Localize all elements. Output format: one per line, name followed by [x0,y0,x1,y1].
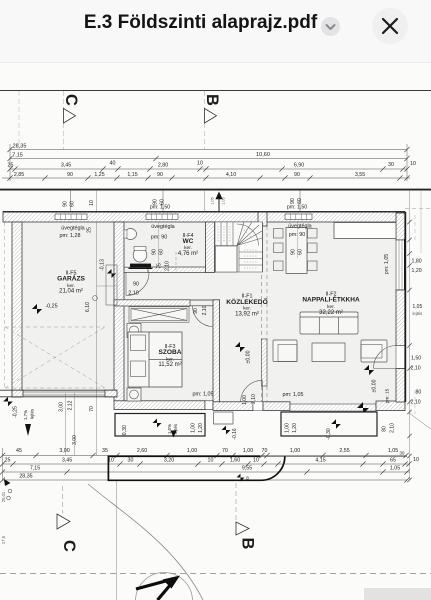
left dim verticals bottom [65,393,67,455]
left outside level -0,25 [3,397,13,407]
wardrobe with X szoba [129,307,189,322]
sill nappali terrace door [290,404,376,411]
svg-text:7,15: 7,15 [30,466,40,472]
door opening right wall [396,346,405,369]
window right wall [396,239,405,291]
svg-text:70: 70 [222,448,228,454]
svg-text:-0,25: -0,25 [45,304,57,310]
wall wc bottom [148,267,206,273]
garage bottom wall with door [0,390,117,397]
svg-text:3,45: 3,45 [61,163,71,169]
svg-text:B: B [203,94,221,106]
svg-text:1,00: 1,00 [290,448,300,454]
entry step [214,412,234,424]
svg-text:2,80: 2,80 [158,163,168,169]
svg-text:1,00: 1,00 [285,423,291,433]
staircase [215,222,263,272]
svg-text:pm: 15: pm: 15 [385,388,391,403]
close button [372,8,408,44]
top wall heavy outer contour [3,211,405,213]
section marker C bottom [62,486,64,513]
kitchen counter [334,223,396,239]
terrace szoba [115,414,205,437]
wall exterior right mid [396,290,405,346]
svg-text:90: 90 [67,172,73,178]
dashed open boundary koz-nappali [261,226,263,339]
wall exterior right upper [396,213,405,240]
svg-text:lejtés: lejtés [30,408,35,419]
svg-text:pm: 1,05: pm: 1,05 [384,254,390,274]
wall exterior left [12,222,22,397]
wall szoba right [213,300,220,405]
right wall door arc [374,346,397,369]
top dimension chain row4 [2,177,410,179]
nappali level marker [364,365,374,375]
armchair right [361,340,387,362]
svg-text:WC: WC [183,238,194,245]
left arrow small [4,479,11,486]
svg-text:4,15: 4,15 [315,458,325,464]
dim stub 10 line x96 [96,190,98,455]
canopy edge thick line [0,189,431,191]
wall szoba bottom [114,401,205,410]
svg-text:32,22 m²: 32,22 m² [319,310,343,316]
dining table [286,228,307,274]
svg-text:1,7%: 1,7% [23,410,28,420]
north arrow [136,578,176,589]
level 8 marker [237,474,245,482]
pdf viewer top bar [0,0,431,63]
svg-text:2,10: 2,10 [411,366,421,372]
svg-text:25: 25 [8,163,14,169]
svg-text:üvegtégla: üvegtégla [151,224,174,230]
svg-text:1,20: 1,20 [412,268,422,274]
svg-text:-0,30: -0,30 [326,428,332,440]
svg-text:pm: 90: pm: 90 [151,235,167,241]
svg-text:C: C [60,540,78,552]
section marker C top [63,91,65,150]
svg-text:1,50: 1,50 [411,356,421,362]
svg-text:60: 60 [159,249,165,255]
terrace door big level marker [357,402,369,414]
svg-text:21,04 m²: 21,04 m² [59,289,83,295]
svg-text:35: 35 [102,448,108,454]
svg-text:60: 60 [297,198,303,204]
bed szoba [128,332,182,387]
svg-text:70: 70 [89,406,95,412]
svg-text:3,00: 3,00 [59,448,69,454]
svg-text:2,85: 2,85 [14,172,24,178]
wall exterior top [3,212,405,223]
svg-text:4,76 m²: 4,76 m² [178,251,198,257]
dim stub wc col 90/60 pm 1,50 [162,190,164,212]
svg-text:45: 45 [16,448,22,454]
dim stub nappali col 90/60 pm 1,50 [299,190,301,212]
svg-text:80: 80 [382,426,388,432]
svg-text:10: 10 [253,458,259,464]
svg-text:60: 60 [70,201,76,207]
bottom dim row B [2,463,410,465]
sofa [300,312,358,334]
svg-text:-0,16: -0,16 [232,428,238,440]
svg-text:10,60: 10,60 [256,152,270,158]
svg-text:B: B [239,538,257,550]
grid line B continuation [204,190,206,212]
svg-text:90: 90 [291,249,297,255]
svg-text:1,00: 1,00 [191,423,197,433]
svg-text:10: 10 [208,458,214,464]
svg-text:25,01: 25,01 [1,491,6,502]
driveway curve [88,484,203,600]
svg-text:90: 90 [63,201,69,207]
svg-text:1,05: 1,05 [413,304,423,310]
svg-text:10: 10 [89,200,95,206]
bottom right gray band [364,588,431,600]
svg-text:3,00: 3,00 [72,435,78,445]
svg-text:1,00: 1,00 [243,448,253,454]
right margin dim lines [409,190,411,480]
svg-text:90: 90 [294,172,300,178]
kozlekedo level marker [235,342,245,352]
svg-text:10: 10 [197,161,203,167]
svg-text:pm: 1,05: pm: 1,05 [283,392,304,398]
door opening koz bottom [253,402,263,411]
svg-text:1,05: 1,05 [211,197,215,204]
svg-text:2,10: 2,10 [411,400,421,406]
svg-text:pm: 90: pm: 90 [289,232,305,238]
vertical line below building [116,481,118,600]
top dimension chain row2 7,15 / 10,60 [10,158,407,160]
glass block strip nappali [285,214,312,220]
svg-text:75: 75 [157,263,163,269]
room floor fills [12,212,117,397]
dining chairs left [274,229,284,239]
svg-text:10: 10 [413,457,419,463]
svg-text:80: 80 [416,390,422,396]
svg-text:pm: 1,28: pm: 1,28 [60,233,81,239]
svg-text:1,0%: 1,0% [167,424,172,434]
svg-text:6,90: 6,90 [294,163,304,169]
svg-text:90: 90 [290,198,296,204]
svg-text:KÖZLEKEDŐ: KÖZLEKEDŐ [226,297,267,306]
svg-text:25: 25 [87,227,93,233]
svg-text:±0,00: ±0,00 [372,379,378,392]
svg-text:28,35: 28,35 [19,474,32,480]
svg-text:1,20: 1,20 [198,423,204,433]
svg-text:1,05: 1,05 [390,466,400,472]
svg-text:28,35: 28,35 [13,144,27,150]
svg-text:1,25: 1,25 [94,172,104,178]
section marker B bottom [235,483,237,521]
svg-text:2,55: 2,55 [339,448,349,454]
section marker B top [204,91,206,149]
svg-text:2,10: 2,10 [165,261,171,271]
right leader diagonal [409,413,431,429]
right margin dashed segments [414,215,416,240]
svg-text:üvegtégla: üvegtégla [61,226,84,232]
svg-text:1,15: 1,15 [127,172,137,178]
wall bottom right segment [376,401,405,411]
svg-text:3,20: 3,20 [164,458,174,464]
wall koz bottom [213,402,253,411]
lower building outline thick [108,455,260,457]
svg-text:4,10: 4,10 [226,172,236,178]
svg-text:90: 90 [152,249,158,255]
svg-text:lejtés: lejtés [413,311,423,316]
step level -0,16 [221,425,230,434]
glass block strip garage [55,214,87,220]
svg-text:SZOBA: SZOBA [158,349,181,356]
bottom dim row A [2,455,407,457]
svg-text:3,00: 3,00 [59,402,65,412]
svg-text:90: 90 [157,172,163,178]
garage car space dashed X [5,327,105,388]
wall koz-nappali bottom segment [263,402,290,411]
svg-text:1,20: 1,20 [292,423,298,433]
svg-text:1,80: 1,80 [412,259,422,265]
terrace nappali [281,412,377,436]
svg-text:1,00: 1,00 [242,395,248,405]
right wall heavy outer contour [404,212,406,402]
glass block strip wc [146,214,178,220]
svg-text:6,10: 6,10 [85,302,91,312]
svg-text:60: 60 [298,249,304,255]
svg-text:-0,30: -0,30 [122,425,128,437]
garage level marker -0,25 [32,304,42,314]
armchair left [273,340,297,362]
svg-text:40: 40 [110,161,116,167]
garage door leaf rect in hall [106,265,117,305]
szoba door arc [193,306,214,327]
wc door arc [126,273,149,296]
bottom dim row D [2,479,407,481]
bottom dim row C [2,471,410,473]
dashed overhang line left [4,222,6,390]
svg-text:GARÁZS: GARÁZS [57,274,85,283]
coffee table [312,343,345,362]
svg-text:1,05: 1,05 [222,197,226,204]
svg-text:65: 65 [390,458,396,464]
svg-text:10: 10 [410,161,416,167]
north circle [136,573,193,600]
chevron button [321,17,340,36]
dim stub left col 90/60 [70,190,72,223]
wall wc right [206,222,215,273]
top frame line [0,90,431,92]
wall szoba top [114,300,190,306]
garage drain [93,296,98,301]
wall stub koz-nappali top [258,212,267,226]
toilet wc [133,248,147,262]
svg-text:7,15: 7,15 [12,153,23,159]
svg-text:9,55: 9,55 [242,466,252,472]
svg-text:2,10: 2,10 [251,394,257,404]
svg-text:üvegtégla: üvegtégla [288,224,311,230]
top dimension chain row1 28,35 [10,149,407,151]
svg-text:11,52 m²: 11,52 m² [158,362,181,368]
entrance arrow [215,192,222,200]
svg-text:2,10: 2,10 [390,423,396,433]
svg-text:2,60: 2,60 [137,448,147,454]
svg-text:30: 30 [128,458,134,464]
wc dim line [158,222,160,267]
svg-text:3,45: 3,45 [62,458,72,464]
svg-text:pm: 1,05: pm: 1,05 [193,392,214,398]
svg-text:90: 90 [193,308,199,314]
washer top nightstand [127,324,141,338]
svg-text:1,60: 1,60 [230,458,240,464]
svg-text:±0,00: ±0,00 [246,350,252,363]
right margin dashed overhang [405,208,431,210]
washbasin wc [125,229,137,240]
wall strip koz-nappali mid [262,339,268,386]
bottom nightstand szoba [127,388,141,401]
svg-text:-0,25: -0,25 [13,406,19,418]
svg-text:pm: 1,50: pm: 1,50 [150,205,170,211]
svg-text:2,10: 2,10 [128,291,139,297]
svg-text:-0,13: -0,13 [100,259,106,271]
grid line x19 dashed [18,91,20,149]
svg-text:25: 25 [5,458,11,464]
radiator black bar wc [130,264,151,268]
svg-text:C: C [62,94,80,106]
svg-text:1,05: 1,05 [388,448,398,454]
svg-text:2,12: 2,12 [68,400,74,410]
svg-text:70: 70 [262,448,268,454]
kozlekedo bottom door arc [241,380,263,402]
svg-text:17,5: 17,5 [1,535,6,544]
svg-text:13,92 m²: 13,92 m² [235,312,259,318]
garage door closed lines [23,391,105,393]
top dimension chain row3 [10,168,407,170]
wall garage-szoba divider [114,222,124,401]
svg-text:3,55: 3,55 [355,172,365,178]
svg-text:NAPPALI-ÉTKKHA: NAPPALI-ÉTKKHA [302,295,360,304]
title [0,12,401,34]
svg-text:pm: 1,50: pm: 1,50 [287,205,307,211]
red boundary dashed line [0,573,431,575]
svg-text:2,10: 2,10 [202,305,208,315]
svg-text:30: 30 [400,451,405,456]
svg-text:90: 90 [133,282,139,288]
dining chairs right [308,229,318,239]
svg-text:1,00: 1,00 [187,448,197,454]
svg-text:30: 30 [388,162,394,168]
wall exterior right lower [396,369,405,403]
